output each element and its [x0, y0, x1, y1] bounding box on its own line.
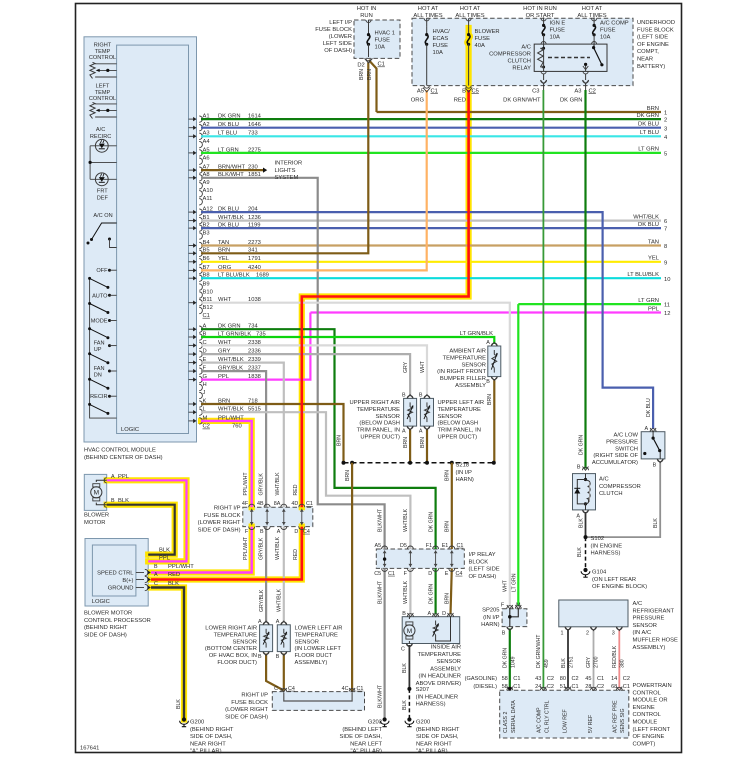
svg-text:(BELOW DASH: (BELOW DASH [438, 421, 479, 427]
svg-text:DK GRN/WHT: DK GRN/WHT [503, 98, 541, 104]
svg-text:10A: 10A [433, 50, 443, 56]
svg-text:B10: B10 [203, 289, 213, 295]
svg-text:ACCUMULATOR): ACCUMULATOR) [592, 460, 638, 466]
wire LT GRN/BLK B amb air temp sig to ambient sensor A [201, 337, 494, 344]
svg-text:COMPRESSOR: COMPRESSOR [599, 484, 641, 490]
wire DK GRN/WHT relay C3 to PCM [542, 90, 544, 689]
svg-text:D: D [428, 571, 432, 577]
HVAC module pin M [189, 415, 245, 424]
HVAC module pin B12 [199, 305, 213, 314]
svg-text:PPL/WHT: PPL/WHT [243, 472, 249, 496]
relay block pass-through E1/E [442, 543, 455, 577]
processor pin stubs [136, 572, 144, 574]
svg-text:A5: A5 [417, 88, 424, 94]
svg-text:C2: C2 [572, 676, 579, 682]
svg-text:SIDE OF DASH): SIDE OF DASH) [84, 632, 127, 638]
svg-text:YEL: YEL [648, 256, 660, 262]
HVAC module pin B11 [189, 297, 261, 306]
svg-text:B: B [577, 465, 581, 471]
svg-text:RIGHT I/P: RIGHT I/P [241, 693, 268, 699]
svg-text:WHT/BLK: WHT/BLK [403, 508, 409, 532]
A/C low pressure switch box [641, 432, 665, 459]
ambient air temperature sensor internals [493, 350, 495, 355]
svg-text:BRN: BRN [445, 521, 451, 532]
svg-text:DK GRN: DK GRN [428, 512, 434, 532]
svg-text:J: J [203, 390, 206, 396]
HVAC module pin C [189, 340, 261, 349]
svg-text:WHT: WHT [503, 579, 509, 592]
relay output connectors [541, 71, 546, 74]
svg-text:BLOCK: BLOCK [469, 559, 489, 565]
A/C refrigerant pressure sensor box [559, 600, 628, 627]
wire BRN upper right sensor A to S218 [409, 429, 411, 463]
ground G200 headliner [407, 717, 411, 721]
svg-text:C1: C1 [378, 62, 385, 68]
svg-text:(IN HEADLINER: (IN HEADLINER [418, 674, 461, 680]
wire WHT/BLK E lo lt air temp sig to lower left sensor A [201, 363, 284, 508]
svg-text:FUSE: FUSE [433, 43, 449, 49]
HVAC module pin L [189, 407, 261, 416]
svg-text:PRESSURE: PRESSURE [633, 616, 665, 622]
wire PPL 12 to right edge [310, 306, 670, 317]
ambient air temperature sensor box [488, 346, 501, 377]
svg-text:A6: A6 [203, 156, 210, 162]
svg-text:ASSEMBLY: ASSEMBLY [455, 383, 486, 389]
wire WHT C up lt air temp sig to upper left sensor B [201, 345, 427, 396]
svg-text:WHT/BLK: WHT/BLK [633, 214, 659, 220]
HVAC module pin C1 [203, 313, 210, 319]
HVAC module pin A4 [199, 139, 210, 148]
switch RECIR [88, 394, 117, 415]
svg-text:C1: C1 [597, 676, 604, 682]
svg-text:BRN: BRN [487, 394, 493, 405]
svg-text:FUSE BLOCK: FUSE BLOCK [637, 27, 674, 33]
svg-text:RED: RED [293, 549, 299, 560]
wire BRN S218 down to I/P relay block E1 [451, 463, 453, 549]
svg-text:A: A [154, 572, 158, 578]
svg-text:B: B [258, 654, 262, 660]
inside air temperature sensor assembly box [402, 617, 460, 644]
highlight: blower motor BLK wire [107, 505, 175, 555]
svg-text:WHT/BLK: WHT/BLK [275, 536, 281, 560]
svg-text:CLASS 2: CLASS 2 [503, 712, 509, 733]
HVAC module pin A11 [199, 196, 212, 205]
svg-text:FUSE BLOCK: FUSE BLOCK [315, 27, 352, 33]
wire WHT/BLK relay block F to inside air sensor B [409, 568, 411, 614]
wire GRY refrigerant sensor 2 5v ref to PCM [593, 629, 595, 689]
HVAC module pin D [189, 349, 261, 358]
S218 splice dashed bus [344, 462, 494, 464]
ground G203 [383, 717, 387, 721]
svg-text:"A" PILLAR): "A" PILLAR) [416, 749, 448, 755]
svg-text:2: 2 [664, 118, 667, 124]
svg-text:10A: 10A [375, 45, 385, 51]
highlight: blower feed RED circuit [302, 28, 469, 507]
svg-text:SENSOR: SENSOR [462, 362, 486, 368]
svg-text:C2: C2 [203, 424, 210, 430]
svg-text:SIDE OF DASH,: SIDE OF DASH, [339, 734, 382, 740]
svg-text:HVAC 1: HVAC 1 [375, 31, 396, 37]
wire BRN upper left sensor A to S218 [426, 429, 428, 463]
svg-text:B12: B12 [203, 305, 213, 311]
svg-text:BLK: BLK [561, 658, 567, 668]
wire BRN left I/P fuse block C1 to exit 1 [369, 60, 377, 112]
A/C compressor clutch box [573, 474, 596, 510]
HVAC module pin B [189, 331, 266, 340]
svg-text:POWERTRAIN: POWERTRAIN [633, 683, 672, 689]
svg-text:G104: G104 [592, 570, 607, 576]
svg-text:FLOOR DUCT: FLOOR DUCT [295, 653, 333, 659]
svg-text:E: E [445, 571, 449, 577]
svg-text:D2: D2 [357, 63, 364, 69]
wire GRY/BLK F lo rt air temp sig to lower right sensor A [201, 371, 266, 507]
svg-text:ALL TIMES: ALL TIMES [577, 13, 606, 19]
svg-text:ASSEMBLY: ASSEMBLY [430, 666, 461, 672]
svg-text:SENSOR: SENSOR [376, 414, 400, 420]
svg-text:DK BLU: DK BLU [638, 222, 659, 228]
svg-text:A11: A11 [203, 196, 213, 202]
svg-text:DK BLU: DK BLU [638, 122, 659, 128]
svg-text:SWITCH: SWITCH [615, 446, 638, 452]
left temp control potentiometer [90, 102, 95, 118]
svg-text:BLOWER MOTOR: BLOWER MOTOR [84, 611, 132, 617]
svg-text:A: A [576, 514, 580, 520]
svg-text:D: D [294, 529, 298, 535]
svg-text:C2: C2 [547, 676, 554, 682]
svg-text:BRN: BRN [367, 69, 373, 80]
HVAC module pin A12 [189, 207, 259, 216]
svg-text:DK GRN/WHT: DK GRN/WHT [536, 634, 542, 668]
relay block pass-through F1/D [426, 543, 439, 577]
svg-text:RED: RED [293, 484, 299, 495]
svg-text:DK BLU: DK BLU [646, 398, 652, 417]
HVAC module pin J [199, 390, 205, 399]
svg-text:WHT/BLK: WHT/BLK [275, 472, 281, 496]
wire LT BLU 4 to right edge [201, 130, 668, 141]
svg-text:TEMPERATURE: TEMPERATURE [438, 407, 482, 413]
svg-text:FAN: FAN [94, 341, 105, 347]
svg-text:OF DASH): OF DASH) [324, 48, 352, 54]
HVAC module pin C2 [203, 424, 242, 430]
HVAC module pin B8 [189, 273, 269, 282]
svg-text:LOWER LEFT AIR: LOWER LEFT AIR [295, 626, 343, 632]
svg-text:OR START: OR START [526, 13, 555, 19]
svg-text:A/C: A/C [633, 601, 643, 607]
svg-text:BLOWER: BLOWER [475, 29, 500, 35]
wire BRN relay block E to inside air sensor D [451, 568, 452, 614]
svg-text:WHT/BLK: WHT/BLK [403, 580, 409, 604]
svg-text:CONTROL: CONTROL [633, 690, 662, 696]
svg-text:A: A [258, 619, 262, 625]
svg-text:REFRIGERANT: REFRIGERANT [633, 608, 675, 614]
svg-text:HOT AT: HOT AT [460, 6, 481, 12]
switch FAN DN [88, 366, 117, 390]
wire BRN ambient sensor B to S218 [493, 379, 495, 463]
svg-text:(IN I/P: (IN I/P [456, 470, 473, 476]
svg-text:HVAC/: HVAC/ [433, 29, 451, 35]
svg-text:A: A [111, 474, 115, 480]
svg-text:C1: C1 [306, 501, 313, 507]
svg-text:A/C: A/C [96, 127, 105, 133]
wire DK BLU 3 to right edge [201, 122, 667, 133]
svg-text:S218: S218 [456, 463, 470, 469]
svg-text:DN: DN [94, 372, 102, 378]
HVAC module pin A10 [199, 188, 213, 197]
svg-text:PPL: PPL [159, 555, 171, 561]
ground G200 blower [182, 717, 186, 721]
svg-text:1049: 1049 [510, 656, 516, 668]
svg-text:(LEFT SIDE: (LEFT SIDE [637, 35, 668, 41]
HVAC module pin A9 [199, 180, 209, 189]
svg-text:AUTO: AUTO [92, 293, 108, 299]
svg-text:DEF: DEF [97, 195, 109, 201]
svg-text:C2: C2 [597, 684, 604, 690]
svg-text:B: B [276, 654, 280, 660]
svg-text:A9: A9 [203, 180, 210, 186]
svg-text:TEMPERATURE: TEMPERATURE [214, 632, 258, 638]
svg-text:LT GRN: LT GRN [512, 573, 518, 592]
mode switch bus [90, 278, 117, 418]
svg-text:RECIRC: RECIRC [90, 134, 111, 140]
svg-text:(BEHIND RIGHT: (BEHIND RIGHT [84, 625, 128, 631]
svg-text:TEMPERATURE: TEMPERATURE [295, 632, 339, 638]
wire DK GRN A inside air temp sig to I/P relay block F1 [201, 329, 436, 549]
svg-text:45: 45 [585, 676, 591, 682]
svg-text:AMBIENT AIR: AMBIENT AIR [449, 349, 486, 355]
svg-text:CLUTCH: CLUTCH [507, 59, 531, 65]
svg-text:F1: F1 [426, 543, 432, 549]
switch MODE [88, 319, 117, 340]
svg-text:8A: 8A [274, 501, 281, 507]
svg-text:B: B [462, 88, 466, 94]
wire PPL G recirc door po sig to exit 12 [201, 313, 310, 380]
svg-text:A4: A4 [203, 139, 211, 145]
right I/P fuse block box (upper) [243, 507, 313, 526]
svg-text:GRY/BLK: GRY/BLK [259, 589, 265, 612]
wire WHT B11 class 2 serial data to SP205 F [201, 303, 510, 606]
svg-text:SIDE OF DASH,: SIDE OF DASH, [416, 734, 459, 740]
svg-text:C4: C4 [456, 571, 463, 577]
svg-text:I/P RELAY: I/P RELAY [469, 552, 496, 558]
svg-text:SENSOR: SENSOR [633, 623, 657, 629]
svg-text:FRT: FRT [97, 189, 108, 195]
wire BRN B5 to left I/P fuse block D2 [201, 63, 368, 254]
svg-text:M: M [94, 490, 99, 497]
ground G104 [583, 568, 587, 572]
border frame [76, 4, 682, 753]
svg-text:(IN A/C: (IN A/C [633, 630, 652, 636]
svg-text:NEAR RIGHT: NEAR RIGHT [190, 741, 226, 747]
svg-text:SPEED CTRL: SPEED CTRL [97, 570, 134, 576]
svg-text:BATTERY): BATTERY) [637, 64, 665, 70]
svg-text:BRN: BRN [445, 470, 451, 481]
highlight: blower ground BLK wire to G200 [151, 588, 184, 720]
svg-text:RIGHT: RIGHT [94, 43, 112, 49]
svg-text:BLK: BLK [402, 700, 408, 710]
svg-text:C1: C1 [357, 686, 364, 692]
upper left air temperature sensor internals [426, 402, 428, 407]
svg-text:SENSOR: SENSOR [437, 659, 461, 665]
svg-text:(BOTTOM CENTER: (BOTTOM CENTER [205, 646, 257, 652]
svg-text:LT BLU/BLK: LT BLU/BLK [627, 272, 659, 278]
svg-text:HOT IN RUN: HOT IN RUN [523, 6, 557, 12]
svg-text:RIGHT I/P: RIGHT I/P [214, 506, 241, 512]
HVAC module pin B6 [189, 256, 261, 265]
HVAC module pin A8 [189, 172, 261, 181]
svg-text:BRN: BRN [445, 593, 451, 604]
svg-text:C3: C3 [532, 88, 539, 94]
svg-text:UNDERHOOD: UNDERHOOD [637, 20, 675, 26]
svg-text:SENS SIG: SENS SIG [620, 708, 626, 733]
svg-text:TAN: TAN [648, 239, 659, 245]
svg-text:BLK: BLK [118, 498, 129, 504]
wire DK GRN relay C2 to A/C compressor clutch B [584, 90, 586, 469]
svg-text:LEFT I/P: LEFT I/P [329, 20, 352, 26]
svg-text:LEFT: LEFT [96, 84, 110, 90]
svg-text:B: B [502, 631, 506, 637]
svg-text:C5: C5 [374, 571, 381, 577]
S102 splice dot [584, 535, 588, 539]
svg-text:UPPER DUCT): UPPER DUCT) [360, 435, 400, 441]
HVAC module pin A2 [189, 122, 261, 131]
left I/P fuse block box [354, 20, 400, 58]
svg-text:GRY: GRY [403, 361, 409, 373]
svg-text:A10: A10 [203, 188, 213, 194]
HVAC module pin B3 [199, 230, 209, 239]
blower motor control processor logic box [92, 545, 135, 596]
fuse A/C COMP 10A [593, 17, 595, 20]
wire RED/BLK refrigerant sensor 3 to PCM [618, 629, 620, 689]
svg-text:FUSE: FUSE [375, 38, 391, 44]
svg-text:FUSE BLOCK: FUSE BLOCK [231, 700, 268, 706]
A/C on switch [92, 223, 117, 240]
svg-text:(BEHIND CENTER OF DASH): (BEHIND CENTER OF DASH) [84, 455, 163, 461]
svg-text:1: 1 [664, 111, 667, 117]
wire BRN K ground to S218 splice [201, 404, 344, 463]
svg-text:B: B [486, 379, 490, 385]
svg-text:MUFFLER HOSE: MUFFLER HOSE [633, 638, 679, 644]
svg-text:G203: G203 [368, 720, 382, 726]
wire LT GRN 5 to right edge [201, 147, 667, 158]
wire BLK compressor clutch A to S102 [585, 512, 587, 537]
I/P relay block box [376, 549, 464, 568]
HVAC module pin B5 [189, 248, 258, 257]
svg-text:LOWER RIGHT AIR: LOWER RIGHT AIR [205, 626, 257, 632]
HVAC module pin B1 [189, 215, 261, 224]
svg-text:IGN E: IGN E [550, 21, 566, 27]
svg-text:DK GRN: DK GRN [428, 584, 434, 604]
svg-text:A: A [644, 426, 648, 432]
svg-text:58: 58 [502, 676, 508, 682]
svg-text:(BEHIND LEFT: (BEHIND LEFT [342, 727, 382, 733]
svg-text:10A: 10A [550, 35, 560, 41]
svg-text:SYSTEM: SYSTEM [275, 175, 299, 181]
svg-text:C1: C1 [431, 88, 438, 94]
svg-text:B: B [402, 611, 406, 617]
svg-text:ECAS: ECAS [433, 36, 449, 42]
svg-text:OFF: OFF [96, 268, 108, 274]
svg-text:M: M [407, 628, 412, 635]
svg-text:11: 11 [664, 303, 670, 309]
svg-text:HARNESS): HARNESS) [416, 702, 446, 708]
svg-text:HOT IN: HOT IN [357, 6, 377, 12]
switch OFF [88, 268, 117, 289]
svg-text:G200: G200 [416, 720, 430, 726]
svg-text:A/C: A/C [521, 45, 531, 51]
svg-text:BLK: BLK [159, 547, 170, 553]
A/C recirc indicator [90, 145, 117, 147]
svg-text:"A" PILLAR): "A" PILLAR) [350, 749, 382, 755]
svg-text:HOT AT: HOT AT [418, 6, 439, 12]
A/C low pressure switch internals [650, 429, 656, 432]
svg-text:MODULE OR: MODULE OR [633, 698, 668, 704]
svg-text:HARN): HARN) [481, 622, 499, 628]
svg-text:G200: G200 [190, 720, 204, 726]
svg-text:UPPER DUCT): UPPER DUCT) [438, 435, 478, 441]
dashed BLK S102 to G104 [585, 537, 587, 570]
relay dashed actuating link [548, 57, 590, 59]
svg-text:BLK: BLK [402, 663, 408, 673]
svg-text:(GASOLINE): (GASOLINE) [465, 676, 497, 682]
svg-text:BLK/WHT: BLK/WHT [377, 580, 383, 604]
svg-text:B: B [111, 498, 115, 504]
dashed BLK S207 to G200 [408, 689, 410, 720]
svg-text:4B: 4B [257, 501, 264, 507]
svg-text:(IN RIGHT FRONT: (IN RIGHT FRONT [437, 369, 486, 375]
fuse BLOWER 40A highlighted [468, 18, 470, 26]
HVAC module pin H [199, 382, 206, 391]
svg-text:TEMP: TEMP [95, 90, 111, 96]
svg-text:14: 14 [611, 676, 617, 682]
svg-text:A/C ON: A/C ON [93, 213, 112, 219]
svg-text:"A" PILLAR): "A" PILLAR) [190, 749, 222, 755]
svg-text:RED/BLK: RED/BLK [612, 645, 618, 668]
svg-text:(RIGHT SIDE OF: (RIGHT SIDE OF [593, 453, 638, 459]
wire RED blower fuse to processor pin A [302, 90, 469, 507]
svg-text:ASSEMBLY): ASSEMBLY) [633, 645, 666, 651]
svg-text:2751: 2751 [569, 656, 575, 668]
svg-text:C1: C1 [572, 684, 579, 690]
svg-text:A: A [402, 429, 406, 435]
lower left air temperature sensor internals [283, 629, 285, 634]
svg-text:PPL: PPL [648, 306, 660, 312]
wire WHT/BLK L temp sen ass ctrl to I/P relay block D5 [201, 412, 410, 549]
svg-text:S102: S102 [591, 536, 605, 542]
svg-text:LT BLU: LT BLU [640, 130, 659, 136]
svg-text:(LEFT SIDE: (LEFT SIDE [469, 567, 500, 573]
svg-text:UP: UP [94, 347, 102, 353]
svg-text:51: 51 [560, 684, 566, 690]
svg-text:167641: 167641 [80, 746, 99, 752]
HVAC module pin A7 [189, 165, 258, 174]
svg-text:C5: C5 [472, 88, 479, 94]
wire BRN 1 to right edge [377, 106, 668, 117]
HVAC module pin A6 [199, 156, 209, 165]
svg-text:(LOWER RIGHT: (LOWER RIGHT [198, 520, 241, 526]
relay block pass-through A5/C5 [374, 543, 387, 577]
upper fuse block pass-through 4F/F [242, 501, 255, 535]
svg-text:LOW REF: LOW REF [563, 709, 569, 733]
svg-text:C2: C2 [589, 88, 596, 94]
svg-text:MODULE: MODULE [633, 720, 658, 726]
svg-text:4F: 4F [242, 501, 249, 507]
svg-text:CLUTCH: CLUTCH [599, 491, 623, 497]
svg-text:D: D [442, 611, 446, 617]
svg-text:C1: C1 [623, 684, 630, 690]
highlight: blower speed ctrl PPL/WHT circuit [201, 421, 252, 507]
svg-text:(DIESEL): (DIESEL) [473, 684, 497, 690]
svg-text:BLK: BLK [577, 547, 583, 557]
